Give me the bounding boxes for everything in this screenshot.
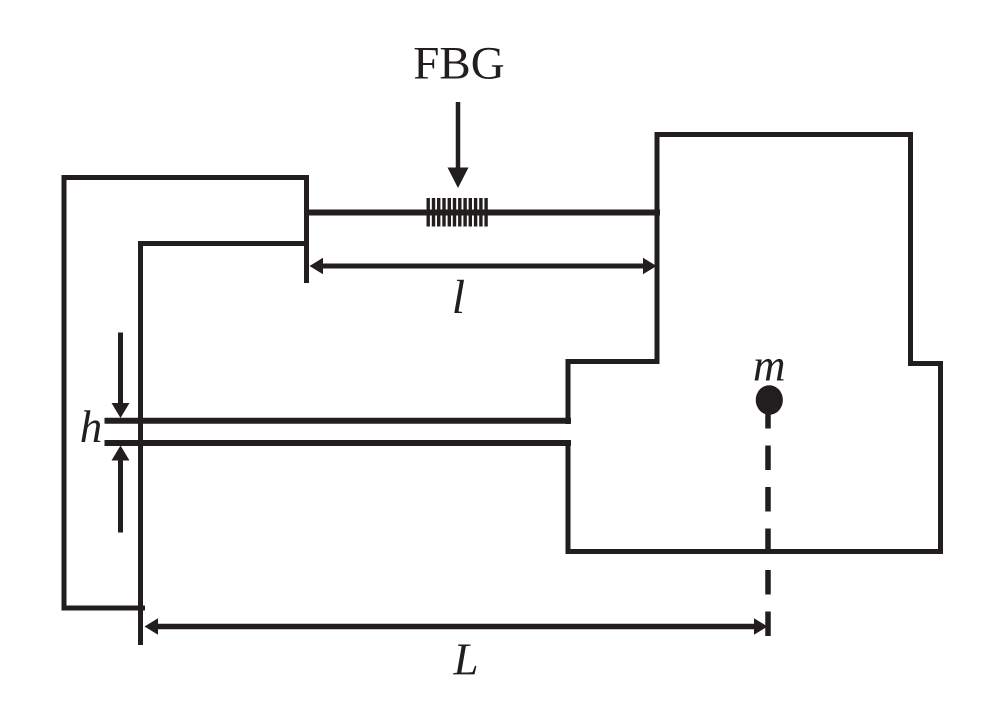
svg-text:L: L (452, 635, 478, 685)
svg-text:l: l (452, 271, 465, 324)
svg-text:FBG: FBG (413, 38, 504, 90)
svg-text:h: h (80, 402, 103, 452)
svg-text:m: m (753, 341, 786, 391)
